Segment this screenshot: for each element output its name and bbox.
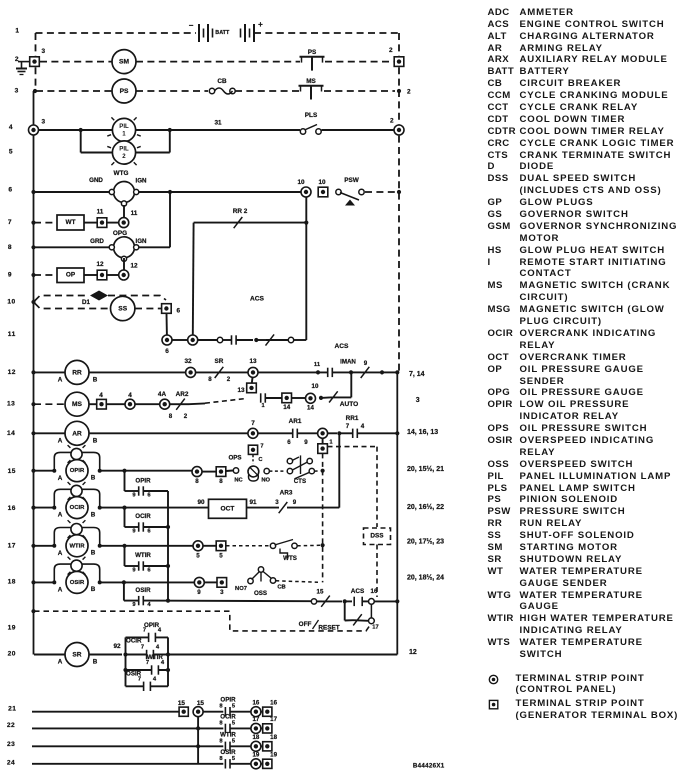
svg-text:OSIR: OSIR xyxy=(70,580,85,586)
svg-text:8: 8 xyxy=(219,478,223,485)
svg-text:5: 5 xyxy=(219,553,223,560)
svg-text:B44426X1: B44426X1 xyxy=(413,763,445,770)
svg-text:2: 2 xyxy=(389,47,393,54)
svg-text:OSS: OSS xyxy=(254,590,267,597)
svg-text:17: 17 xyxy=(372,625,378,631)
svg-text:AR3: AR3 xyxy=(280,490,293,497)
svg-text:12: 12 xyxy=(8,369,16,376)
svg-text:B: B xyxy=(93,659,98,666)
svg-text:5: 5 xyxy=(196,553,200,560)
svg-text:7: 7 xyxy=(251,420,255,427)
svg-text:OSIR: OSIR xyxy=(220,749,236,756)
svg-text:SM: SM xyxy=(119,59,129,66)
svg-text:WTS: WTS xyxy=(283,555,297,562)
svg-text:3: 3 xyxy=(416,397,420,404)
svg-text:2: 2 xyxy=(390,118,394,125)
svg-text:16: 16 xyxy=(252,700,259,707)
svg-text:A: A xyxy=(58,659,63,666)
svg-text:WTIR: WTIR xyxy=(69,543,85,549)
svg-text:OPS: OPS xyxy=(228,455,241,462)
svg-text:11: 11 xyxy=(314,362,321,368)
svg-text:9: 9 xyxy=(304,439,308,446)
svg-text:6: 6 xyxy=(147,529,151,535)
svg-text:8: 8 xyxy=(208,376,212,383)
svg-text:3: 3 xyxy=(15,88,19,95)
svg-text:20: 20 xyxy=(8,650,16,657)
svg-text:ACS: ACS xyxy=(351,588,365,595)
svg-text:B: B xyxy=(91,550,96,557)
svg-text:OFF: OFF xyxy=(299,621,312,628)
svg-text:5: 5 xyxy=(232,738,236,744)
svg-text:92: 92 xyxy=(113,643,121,650)
svg-text:91: 91 xyxy=(249,499,257,506)
svg-text:7: 7 xyxy=(141,645,144,651)
svg-text:20, 18½, 24: 20, 18½, 24 xyxy=(407,574,444,582)
svg-text:SR: SR xyxy=(72,652,81,659)
svg-text:IGN: IGN xyxy=(135,238,147,245)
svg-text:10: 10 xyxy=(312,383,319,390)
svg-text:18: 18 xyxy=(270,734,277,741)
svg-text:AR: AR xyxy=(72,430,82,437)
svg-text:+: + xyxy=(258,20,263,29)
svg-text:OP: OP xyxy=(66,272,76,279)
svg-text:5: 5 xyxy=(232,704,236,710)
svg-text:18: 18 xyxy=(252,734,259,741)
svg-text:1: 1 xyxy=(261,403,264,409)
svg-text:OPIR: OPIR xyxy=(220,697,236,704)
svg-text:7: 7 xyxy=(8,219,12,226)
svg-text:5: 5 xyxy=(9,149,13,156)
svg-text:2: 2 xyxy=(15,56,19,63)
svg-text:A: A xyxy=(58,377,63,384)
svg-text:B: B xyxy=(91,586,96,593)
svg-text:6: 6 xyxy=(165,348,169,355)
svg-text:SS: SS xyxy=(118,306,127,313)
svg-text:1: 1 xyxy=(329,440,333,446)
svg-text:10: 10 xyxy=(297,179,305,186)
svg-text:12: 12 xyxy=(409,649,417,656)
svg-text:20, 16½, 22: 20, 16½, 22 xyxy=(407,503,444,511)
svg-text:20, 17½, 23: 20, 17½, 23 xyxy=(407,538,444,546)
svg-text:7: 7 xyxy=(346,423,350,430)
svg-text:C: C xyxy=(258,457,263,463)
svg-text:16: 16 xyxy=(371,588,378,595)
svg-text:B: B xyxy=(91,474,96,481)
svg-text:A: A xyxy=(58,550,63,557)
svg-text:14, 16, 13: 14, 16, 13 xyxy=(407,429,438,436)
svg-text:NO7: NO7 xyxy=(235,586,247,592)
svg-text:9: 9 xyxy=(293,499,297,506)
svg-text:DSS: DSS xyxy=(370,533,384,540)
svg-text:WTIR: WTIR xyxy=(135,552,151,559)
svg-text:−: − xyxy=(189,21,194,30)
svg-text:14: 14 xyxy=(7,430,15,437)
svg-text:11: 11 xyxy=(97,209,104,216)
svg-text:15: 15 xyxy=(317,589,324,596)
svg-text:16: 16 xyxy=(8,505,16,512)
svg-text:13: 13 xyxy=(249,358,257,365)
svg-text:5: 5 xyxy=(232,756,236,762)
svg-text:4: 4 xyxy=(153,676,157,682)
svg-text:15: 15 xyxy=(8,468,16,475)
svg-text:IGN: IGN xyxy=(135,178,147,185)
svg-text:CB: CB xyxy=(217,78,227,85)
svg-text:11: 11 xyxy=(131,210,138,217)
svg-text:B: B xyxy=(93,377,98,384)
svg-text:PS: PS xyxy=(120,88,129,95)
svg-text:6: 6 xyxy=(8,187,12,194)
svg-text:3: 3 xyxy=(275,499,279,506)
svg-text:16: 16 xyxy=(270,700,277,707)
svg-text:PLS: PLS xyxy=(305,112,318,119)
svg-text:6: 6 xyxy=(147,568,151,574)
svg-text:23: 23 xyxy=(7,741,15,748)
svg-text:14: 14 xyxy=(283,404,290,411)
svg-text:SR: SR xyxy=(215,358,224,365)
svg-text:4: 4 xyxy=(156,645,160,651)
svg-text:PSW: PSW xyxy=(344,177,360,184)
svg-text:13: 13 xyxy=(237,387,245,394)
svg-text:A: A xyxy=(58,587,63,594)
svg-text:3: 3 xyxy=(220,589,224,596)
svg-text:19: 19 xyxy=(270,752,277,759)
svg-text:PS: PS xyxy=(308,49,317,56)
svg-text:WTIR: WTIR xyxy=(220,731,236,738)
svg-text:AR2: AR2 xyxy=(176,391,189,398)
svg-text:AR1: AR1 xyxy=(289,418,302,425)
svg-text:8: 8 xyxy=(219,756,223,762)
svg-text:A: A xyxy=(58,475,63,482)
svg-text:BATT: BATT xyxy=(215,30,230,36)
svg-text:8: 8 xyxy=(219,720,223,726)
svg-text:7, 14: 7, 14 xyxy=(409,371,425,378)
svg-text:WT: WT xyxy=(66,219,76,226)
svg-text:2: 2 xyxy=(227,376,231,383)
svg-text:B: B xyxy=(91,511,96,518)
svg-text:3: 3 xyxy=(42,48,46,55)
svg-text:WTIR: WTIR xyxy=(147,654,163,661)
svg-text:14: 14 xyxy=(307,405,314,412)
svg-text:32: 32 xyxy=(184,358,192,365)
svg-text:PIL: PIL xyxy=(119,123,129,130)
svg-text:17: 17 xyxy=(8,542,16,549)
svg-text:OPG: OPG xyxy=(113,230,127,237)
svg-text:24: 24 xyxy=(7,760,15,767)
svg-text:18: 18 xyxy=(8,579,16,586)
svg-text:OSIR: OSIR xyxy=(126,671,142,678)
svg-text:A: A xyxy=(58,512,63,519)
svg-text:9: 9 xyxy=(8,272,12,279)
svg-text:11: 11 xyxy=(8,331,16,338)
svg-text:4: 4 xyxy=(9,124,13,131)
svg-text:12: 12 xyxy=(130,263,138,270)
svg-text:4A: 4A xyxy=(158,391,167,398)
svg-text:NC: NC xyxy=(234,478,243,484)
svg-text:17: 17 xyxy=(252,716,259,723)
svg-text:6: 6 xyxy=(177,308,181,315)
svg-text:B: B xyxy=(93,438,98,445)
svg-text:9: 9 xyxy=(132,493,136,499)
svg-text:15: 15 xyxy=(178,700,186,707)
svg-text:7: 7 xyxy=(260,444,263,450)
svg-text:D1: D1 xyxy=(82,299,90,306)
svg-text:2: 2 xyxy=(407,89,411,96)
svg-text:RR: RR xyxy=(72,369,82,376)
svg-text:12: 12 xyxy=(96,261,104,268)
svg-text:9: 9 xyxy=(197,589,201,596)
svg-text:9: 9 xyxy=(132,529,136,535)
svg-text:MS: MS xyxy=(72,401,82,408)
svg-text:ACS: ACS xyxy=(335,343,350,350)
svg-text:19: 19 xyxy=(8,625,16,632)
svg-text:GRD: GRD xyxy=(90,238,104,245)
svg-text:10: 10 xyxy=(318,179,326,186)
svg-text:9: 9 xyxy=(132,568,136,574)
svg-text:ACS: ACS xyxy=(250,296,265,303)
svg-text:9: 9 xyxy=(132,602,136,608)
svg-text:15: 15 xyxy=(197,700,205,707)
svg-text:31: 31 xyxy=(214,120,222,127)
svg-text:5: 5 xyxy=(232,720,236,726)
svg-text:WTG: WTG xyxy=(114,170,129,177)
svg-text:PIL: PIL xyxy=(119,146,129,153)
svg-text:4: 4 xyxy=(128,392,132,399)
svg-text:6: 6 xyxy=(287,439,291,446)
svg-text:1: 1 xyxy=(15,28,19,35)
svg-text:90: 90 xyxy=(197,499,205,506)
svg-text:OPIR: OPIR xyxy=(135,478,151,485)
svg-text:8: 8 xyxy=(169,413,173,420)
svg-text:OCIR: OCIR xyxy=(135,513,151,520)
svg-text:OCIR: OCIR xyxy=(220,713,236,720)
svg-text:IMAN: IMAN xyxy=(340,359,356,366)
svg-text:AUTO: AUTO xyxy=(340,401,359,408)
svg-text:8: 8 xyxy=(8,244,12,251)
svg-text:OCIR: OCIR xyxy=(70,505,85,511)
svg-text:RR1: RR1 xyxy=(346,415,359,422)
svg-text:4: 4 xyxy=(99,392,103,399)
svg-text:20, 15½, 21: 20, 15½, 21 xyxy=(407,465,444,473)
svg-text:9: 9 xyxy=(364,360,368,367)
svg-text:NO: NO xyxy=(261,478,270,484)
svg-text:CTS: CTS xyxy=(294,478,306,485)
svg-text:19: 19 xyxy=(252,752,259,759)
svg-text:4: 4 xyxy=(361,423,365,430)
svg-text:8: 8 xyxy=(219,704,223,710)
svg-text:RR 2: RR 2 xyxy=(233,208,248,215)
svg-text:MS: MS xyxy=(306,78,316,85)
svg-text:13: 13 xyxy=(7,401,15,408)
svg-text:2: 2 xyxy=(184,413,188,420)
svg-text:22: 22 xyxy=(7,722,15,729)
svg-text:6: 6 xyxy=(147,493,151,499)
svg-text:OCT: OCT xyxy=(221,505,235,512)
svg-text:10: 10 xyxy=(7,298,15,305)
svg-text:OPIR: OPIR xyxy=(144,622,160,629)
svg-text:8: 8 xyxy=(219,738,223,744)
svg-text:OPIR: OPIR xyxy=(70,468,85,474)
svg-text:OCIR: OCIR xyxy=(126,638,142,645)
svg-text:3: 3 xyxy=(42,119,46,126)
svg-text:21: 21 xyxy=(8,706,16,713)
svg-text:17: 17 xyxy=(270,716,277,723)
svg-text:GND: GND xyxy=(89,177,103,184)
svg-text:8: 8 xyxy=(195,478,199,485)
svg-text:4: 4 xyxy=(147,602,151,608)
svg-text:A: A xyxy=(58,438,63,445)
svg-text:OSIR: OSIR xyxy=(135,587,151,594)
svg-text:CB: CB xyxy=(277,585,285,591)
